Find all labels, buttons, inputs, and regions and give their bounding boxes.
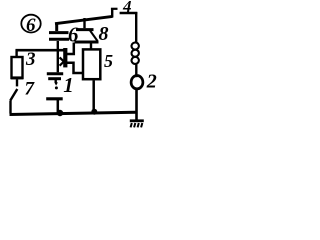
svg-text:6: 6 <box>68 23 79 47</box>
svg-text:6: 6 <box>26 15 36 36</box>
svg-text:7: 7 <box>25 79 36 100</box>
svg-text:4: 4 <box>122 0 132 16</box>
svg-text:1: 1 <box>63 73 73 97</box>
svg-text:8: 8 <box>99 23 109 45</box>
svg-text:2: 2 <box>146 70 157 92</box>
svg-text:3: 3 <box>25 49 36 70</box>
svg-text:5: 5 <box>104 51 113 71</box>
